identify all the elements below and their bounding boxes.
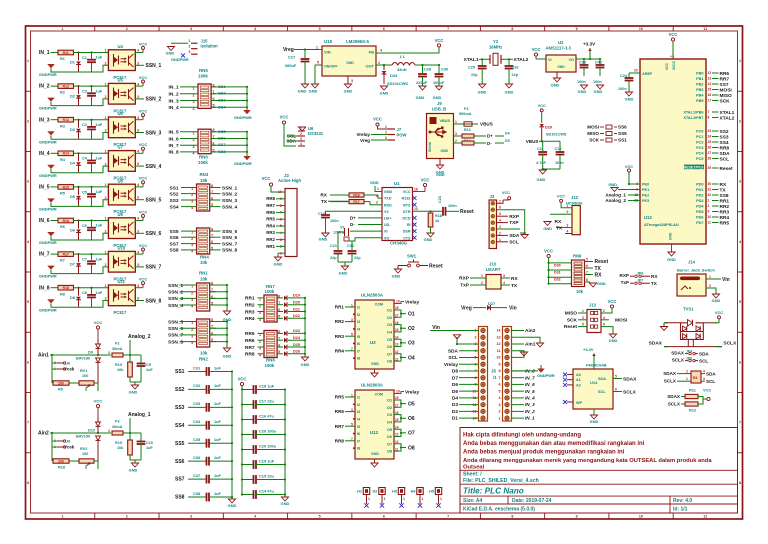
svg-text:SSN_2: SSN_2 xyxy=(222,191,238,197)
svg-text:12: 12 xyxy=(395,440,399,444)
svg-text:GND: GND xyxy=(166,51,175,56)
svg-text:I1: I1 xyxy=(357,396,360,400)
svg-text:SS2: SS2 xyxy=(170,191,179,197)
svg-text:Vreg: Vreg xyxy=(461,305,472,311)
svg-text:R3: R3 xyxy=(60,124,65,128)
svg-text:GND: GND xyxy=(298,89,307,94)
svg-text:VCC: VCC xyxy=(403,190,411,194)
svg-text:GNDPWR: GNDPWR xyxy=(234,115,252,120)
svg-text:D24: D24 xyxy=(293,336,301,340)
svg-text:1: 1 xyxy=(377,187,379,191)
svg-text:GNDPWR: GNDPWR xyxy=(39,274,57,279)
svg-text:2: 2 xyxy=(126,515,128,519)
svg-text:680uF: 680uF xyxy=(285,63,297,68)
svg-text:O6: O6 xyxy=(387,435,392,439)
svg-text:2: 2 xyxy=(105,162,107,166)
svg-text:Anda bebas menggunakan dan ata: Anda bebas menggunakan dan atau memodifi… xyxy=(463,441,645,447)
svg-text:GND: GND xyxy=(436,172,445,177)
svg-text:D4: D4 xyxy=(452,396,458,402)
svg-text:PD7: PD7 xyxy=(696,221,703,225)
svg-text:+3.3V: +3.3V xyxy=(583,42,596,47)
svg-text:SDAX: SDAX xyxy=(671,351,685,356)
svg-text:Reset: Reset xyxy=(429,264,443,270)
svg-text:VCC: VCC xyxy=(373,117,382,122)
svg-text:DCD: DCD xyxy=(403,217,411,221)
svg-text:TxP: TxP xyxy=(621,280,629,285)
svg-text:SCL: SCL xyxy=(448,355,458,361)
svg-text:GND: GND xyxy=(309,89,318,94)
svg-text:D25: D25 xyxy=(293,343,300,347)
svg-text:GND: GND xyxy=(551,83,560,88)
svg-text:3: 3 xyxy=(191,335,193,339)
svg-text:4: 4 xyxy=(193,107,195,111)
svg-text:IN_7: IN_7 xyxy=(39,252,50,258)
svg-text:VCC: VCC xyxy=(421,178,430,183)
svg-text:SDA: SDA xyxy=(699,352,709,357)
svg-text:D4: D4 xyxy=(505,132,510,136)
svg-text:O7: O7 xyxy=(387,352,392,356)
svg-text:VCC: VCC xyxy=(538,103,546,108)
svg-text:IN_7: IN_7 xyxy=(525,375,535,380)
svg-text:SSN_7: SSN_7 xyxy=(222,241,238,247)
svg-text:1: 1 xyxy=(422,497,424,501)
svg-text:1: 1 xyxy=(105,150,107,154)
svg-text:I3: I3 xyxy=(357,410,360,414)
svg-text:9: 9 xyxy=(576,515,578,519)
svg-text:Vin: Vin xyxy=(432,325,440,331)
svg-text:100n: 100n xyxy=(577,80,586,84)
svg-text:2: 2 xyxy=(481,281,483,285)
svg-text:Id: 1/1: Id: 1/1 xyxy=(673,507,688,513)
svg-text:3: 3 xyxy=(567,224,569,228)
svg-text:4: 4 xyxy=(703,370,705,374)
svg-text:TX: TX xyxy=(651,281,658,286)
svg-text:RV1: RV1 xyxy=(80,369,87,373)
svg-text:PD4: PD4 xyxy=(696,205,704,209)
svg-text:Vin: Vin xyxy=(509,305,517,311)
svg-text:14: 14 xyxy=(708,82,712,86)
svg-text:DTR: DTR xyxy=(403,210,411,214)
svg-text:VCC: VCC xyxy=(139,243,148,248)
svg-text:11: 11 xyxy=(703,515,707,519)
svg-text:RR4: RR4 xyxy=(720,215,730,221)
svg-text:PC4: PC4 xyxy=(696,152,704,156)
svg-text:SDAX: SDAX xyxy=(667,394,681,399)
svg-text:C19 1uF: C19 1uF xyxy=(259,459,275,464)
svg-text:R18: R18 xyxy=(435,214,442,218)
svg-text:SSN_6: SSN_6 xyxy=(146,231,162,237)
svg-text:Vreg: Vreg xyxy=(360,138,370,143)
svg-text:SCL: SCL xyxy=(706,379,715,384)
svg-text:C12: C12 xyxy=(555,147,562,151)
svg-text:ON/OFF: ON/OFF xyxy=(324,65,338,69)
svg-text:IN_1: IN_1 xyxy=(39,50,50,56)
svg-text:R13: R13 xyxy=(63,118,69,122)
svg-text:22p: 22p xyxy=(354,256,361,260)
svg-text:10k: 10k xyxy=(200,260,208,265)
svg-text:SS4: SS4 xyxy=(720,140,729,146)
svg-text:33uH: 33uH xyxy=(397,67,407,72)
svg-text:28: 28 xyxy=(708,156,712,160)
svg-text:R11: R11 xyxy=(63,51,69,55)
svg-text:4: 4 xyxy=(603,316,605,320)
svg-text:PC2: PC2 xyxy=(696,141,703,145)
svg-text:8: 8 xyxy=(511,27,513,31)
svg-text:1uF: 1uF xyxy=(214,365,222,370)
svg-text:3: 3 xyxy=(108,429,110,433)
svg-text:IN_4: IN_4 xyxy=(525,396,535,401)
svg-text:C6: C6 xyxy=(82,224,87,228)
svg-text:1uF: 1uF xyxy=(214,437,222,442)
svg-text:C30: C30 xyxy=(441,67,448,72)
svg-text:VCC: VCC xyxy=(544,249,553,254)
svg-text:SSN_1: SSN_1 xyxy=(222,185,238,191)
svg-text:SS3: SS3 xyxy=(175,405,185,411)
svg-text:3: 3 xyxy=(499,403,501,407)
svg-text:100k: 100k xyxy=(198,160,208,165)
svg-text:7: 7 xyxy=(278,301,280,305)
svg-text:SDA: SDA xyxy=(598,377,606,381)
svg-text:4: 4 xyxy=(191,206,193,210)
svg-text:COM: COM xyxy=(375,392,383,396)
svg-text:13: 13 xyxy=(414,207,418,211)
svg-text:D32: D32 xyxy=(554,278,561,282)
svg-text:IN_3: IN_3 xyxy=(525,402,535,407)
svg-text:500mA: 500mA xyxy=(459,112,472,116)
svg-text:1: 1 xyxy=(105,250,107,254)
svg-text:5: 5 xyxy=(211,203,213,207)
svg-text:MISO: MISO xyxy=(587,131,599,136)
svg-text:VCC: VCC xyxy=(94,399,103,404)
svg-text:Isolation: Isolation xyxy=(201,44,219,49)
svg-text:C38: C38 xyxy=(193,491,201,496)
svg-text:D31: D31 xyxy=(554,271,561,275)
svg-text:/1: /1 xyxy=(493,375,497,380)
svg-text:2: 2 xyxy=(27,119,29,123)
svg-text:AVCC: AVCC xyxy=(672,60,676,70)
svg-text:6: 6 xyxy=(603,323,605,327)
svg-text:1: 1 xyxy=(191,187,193,191)
svg-text:O1: O1 xyxy=(408,311,415,317)
svg-text:SS6: SS6 xyxy=(175,459,185,465)
svg-text:3: 3 xyxy=(739,180,741,184)
svg-text:IN_2: IN_2 xyxy=(525,409,535,414)
svg-text:U2: U2 xyxy=(558,40,564,45)
svg-text:100: 100 xyxy=(82,452,88,456)
svg-text:17: 17 xyxy=(395,314,399,318)
svg-text:10: 10 xyxy=(396,390,400,394)
svg-text:C37: C37 xyxy=(193,473,200,478)
svg-text:A1: A1 xyxy=(576,378,581,382)
svg-text:14: 14 xyxy=(395,335,399,339)
svg-text:1: 1 xyxy=(105,217,107,221)
svg-text:Anda dilarang menggunakan mere: Anda dilarang menggunakan merek yang men… xyxy=(463,458,712,464)
svg-text:2: 2 xyxy=(105,297,107,301)
svg-text:C21: C21 xyxy=(330,244,337,248)
svg-text:100n: 100n xyxy=(593,80,602,84)
svg-text:RR5: RR5 xyxy=(245,331,255,337)
svg-text:XTAL2: XTAL2 xyxy=(720,115,735,121)
svg-text:PC1: PC1 xyxy=(696,135,703,139)
svg-text:R11: R11 xyxy=(689,388,697,393)
svg-text:3: 3 xyxy=(376,201,378,205)
svg-text:C34: C34 xyxy=(193,419,201,424)
svg-text:GND: GND xyxy=(274,262,283,267)
svg-text:GND: GND xyxy=(433,95,442,100)
svg-text:7: 7 xyxy=(27,421,29,425)
svg-text:PB2: PB2 xyxy=(696,83,703,87)
svg-text:Vreg: Vreg xyxy=(283,47,294,53)
svg-text:2: 2 xyxy=(709,284,711,288)
svg-text:U13: U13 xyxy=(644,215,652,220)
svg-text:4: 4 xyxy=(499,219,501,223)
svg-text:GND: GND xyxy=(370,180,379,185)
svg-text:RR6: RR6 xyxy=(266,210,275,215)
svg-text:D22: D22 xyxy=(293,314,300,318)
svg-text:6: 6 xyxy=(383,27,385,31)
svg-text:7: 7 xyxy=(211,190,213,194)
svg-text:IN_4: IN_4 xyxy=(39,151,50,157)
svg-text:O7: O7 xyxy=(408,431,415,437)
svg-text:Active High: Active High xyxy=(278,178,301,183)
svg-text:RR6: RR6 xyxy=(720,71,730,77)
svg-text:SDA: SDA xyxy=(706,372,716,377)
svg-text:PE0: PE0 xyxy=(642,183,649,187)
svg-text:GND: GND xyxy=(578,89,587,94)
svg-text:IN_1: IN_1 xyxy=(169,85,179,91)
svg-text:6: 6 xyxy=(211,240,213,244)
svg-text:RR4: RR4 xyxy=(245,316,255,322)
svg-text:C5: C5 xyxy=(82,190,87,194)
svg-text:GND: GND xyxy=(129,390,138,395)
svg-text:C23: C23 xyxy=(438,196,442,203)
svg-text:VCC: VCC xyxy=(139,41,148,46)
svg-text:Anda bebas menjual produk meng: Anda bebas menjual produk menggunakan ra… xyxy=(463,450,625,456)
svg-text:R16: R16 xyxy=(63,219,69,223)
svg-text:SSN_4: SSN_4 xyxy=(168,303,184,309)
svg-text:VCC: VCC xyxy=(238,377,247,382)
svg-text:I8: I8 xyxy=(357,357,360,361)
svg-text:SSN_3: SSN_3 xyxy=(146,130,162,136)
svg-text:GND: GND xyxy=(543,226,552,231)
svg-text:O4: O4 xyxy=(387,421,393,425)
svg-text:1: 1 xyxy=(351,303,353,307)
svg-text:100k: 100k xyxy=(265,363,275,368)
svg-text:VCC: VCC xyxy=(139,142,148,147)
svg-text:4: 4 xyxy=(503,281,505,285)
svg-text:O3: O3 xyxy=(408,341,415,347)
svg-text:J8: J8 xyxy=(66,440,70,444)
svg-text:Analog_1: Analog_1 xyxy=(605,193,626,198)
svg-text:11: 11 xyxy=(395,447,399,451)
svg-text:D8: D8 xyxy=(70,296,75,300)
svg-text:1: 1 xyxy=(739,59,741,63)
svg-text:SSN_8: SSN_8 xyxy=(222,248,238,254)
svg-text:D+: D+ xyxy=(487,134,493,139)
svg-text:TXD: TXD xyxy=(384,197,392,201)
svg-text:IN_1: IN_1 xyxy=(525,416,535,421)
svg-text:RR4: RR4 xyxy=(335,348,345,353)
svg-text:200: 200 xyxy=(58,459,64,463)
svg-text:RR3: RR3 xyxy=(266,230,275,235)
svg-text:Ain2: Ain2 xyxy=(38,431,49,437)
svg-text:IN_8: IN_8 xyxy=(39,285,50,291)
svg-text:2: 2 xyxy=(259,304,261,308)
svg-text:C32: C32 xyxy=(193,383,201,388)
svg-text:U11: U11 xyxy=(118,279,126,284)
svg-text:22p: 22p xyxy=(330,256,337,260)
svg-text:2: 2 xyxy=(105,129,107,133)
svg-text:PD0: PD0 xyxy=(696,183,703,187)
svg-text:R19: R19 xyxy=(115,441,122,445)
svg-text:5: 5 xyxy=(351,423,353,427)
svg-text:SSN_7: SSN_7 xyxy=(168,333,184,339)
svg-text:Reset: Reset xyxy=(720,166,733,172)
svg-text:VCC: VCC xyxy=(557,194,565,199)
svg-text:C9: C9 xyxy=(146,363,151,367)
svg-text:U12: U12 xyxy=(370,430,379,435)
svg-text:Title: PLC Nano: Title: PLC Nano xyxy=(463,487,524,496)
svg-text:1: 1 xyxy=(105,49,107,53)
svg-text:1uF: 1uF xyxy=(96,291,103,295)
svg-text:SDA: SDA xyxy=(448,348,459,354)
svg-text:GND: GND xyxy=(344,89,353,94)
svg-text:H5: H5 xyxy=(429,490,434,494)
svg-text:D6: D6 xyxy=(70,229,75,233)
svg-text:GND: GND xyxy=(440,149,448,153)
svg-text:C16 47u: C16 47u xyxy=(259,414,275,419)
svg-text:D19: D19 xyxy=(293,294,300,298)
svg-text:RN9: RN9 xyxy=(573,254,582,259)
svg-text:R5: R5 xyxy=(58,388,63,392)
svg-text:GNDPWR: GNDPWR xyxy=(171,57,189,62)
svg-text:5: 5 xyxy=(27,300,29,304)
svg-text:XO: XO xyxy=(384,236,389,240)
svg-text:3: 3 xyxy=(351,408,353,412)
svg-text:SCLX: SCLX xyxy=(672,358,685,363)
svg-text:U15: U15 xyxy=(324,39,333,44)
svg-text:3: 3 xyxy=(137,162,139,166)
svg-text:6: 6 xyxy=(27,360,29,364)
svg-text:RXP: RXP xyxy=(509,214,520,220)
svg-text:O4: O4 xyxy=(387,331,393,335)
svg-text:VBUS: VBUS xyxy=(439,119,450,123)
svg-text:SSN_3: SSN_3 xyxy=(222,198,238,204)
svg-text:D29: D29 xyxy=(545,126,552,130)
svg-text:D-: D- xyxy=(350,222,355,227)
svg-text:2: 2 xyxy=(126,27,128,31)
svg-text:SSN_4: SSN_4 xyxy=(222,204,238,210)
svg-text:200: 200 xyxy=(58,381,64,385)
svg-text:8: 8 xyxy=(511,515,513,519)
svg-text:TXP: TXP xyxy=(509,220,519,226)
svg-text:RR5: RR5 xyxy=(720,220,730,226)
svg-text:D2: D2 xyxy=(70,94,75,98)
svg-text:IN_2: IN_2 xyxy=(169,92,179,98)
svg-text:GND: GND xyxy=(223,354,232,359)
svg-text:IN_5: IN_5 xyxy=(169,130,179,136)
svg-text:1uF: 1uF xyxy=(96,224,103,228)
svg-text:1: 1 xyxy=(686,377,688,381)
svg-text:Y2: Y2 xyxy=(493,39,499,44)
svg-text:3: 3 xyxy=(300,137,302,141)
svg-text:OUT: OUT xyxy=(366,64,375,69)
svg-text:RR2: RR2 xyxy=(335,319,345,324)
svg-text:1: 1 xyxy=(499,238,501,242)
svg-text:USB_B: USB_B xyxy=(432,107,446,112)
svg-text:XTAL2: XTAL2 xyxy=(514,57,529,63)
svg-text:R16: R16 xyxy=(353,193,359,197)
svg-text:GND: GND xyxy=(590,419,599,424)
svg-text:20: 20 xyxy=(634,69,638,73)
svg-text:RR5: RR5 xyxy=(335,395,345,400)
svg-text:RR3: RR3 xyxy=(245,309,255,315)
svg-text:1: 1 xyxy=(259,333,261,337)
svg-text:C3: C3 xyxy=(82,123,87,127)
svg-text:3: 3 xyxy=(108,351,110,355)
svg-text:9: 9 xyxy=(499,362,501,366)
svg-text:I5: I5 xyxy=(357,335,360,339)
svg-text:GND: GND xyxy=(478,90,487,95)
svg-text:RR1: RR1 xyxy=(245,296,255,302)
svg-text:J10: J10 xyxy=(489,262,497,267)
svg-text:SS5: SS5 xyxy=(170,229,179,235)
svg-text:VBUS: VBUS xyxy=(526,139,539,144)
svg-text:2: 2 xyxy=(191,328,193,332)
svg-text:SDAX: SDAX xyxy=(623,376,637,382)
svg-text:1uF: 1uF xyxy=(214,401,222,406)
svg-text:IN_4: IN_4 xyxy=(169,105,179,111)
svg-text:15: 15 xyxy=(395,418,399,422)
svg-text:V3: V3 xyxy=(384,210,389,214)
svg-text:C18 1uF: C18 1uF xyxy=(259,384,275,389)
svg-text:18: 18 xyxy=(395,306,399,310)
svg-text:RN3: RN3 xyxy=(200,172,209,177)
svg-text:RR7: RR7 xyxy=(245,345,255,351)
svg-text:10k: 10k xyxy=(117,446,124,450)
svg-text:9: 9 xyxy=(576,27,578,31)
svg-text:10k: 10k xyxy=(200,277,208,282)
svg-text:Vrelay: Vrelay xyxy=(405,300,419,306)
svg-text:RR7: RR7 xyxy=(266,203,275,208)
svg-text:3: 3 xyxy=(193,100,195,104)
svg-text:F1: F1 xyxy=(464,106,469,111)
svg-text:GND: GND xyxy=(505,90,514,95)
svg-text:VCC: VCC xyxy=(665,62,669,70)
svg-text:GND: GND xyxy=(319,237,328,242)
svg-text:PD3: PD3 xyxy=(696,199,703,203)
svg-text:15: 15 xyxy=(708,87,712,91)
svg-text:SS4: SS4 xyxy=(175,423,185,429)
svg-text:RN5: RN5 xyxy=(199,68,208,73)
svg-text:XTAL1/PB6: XTAL1/PB6 xyxy=(683,111,703,115)
svg-text:D7: D7 xyxy=(452,375,458,381)
svg-text:7: 7 xyxy=(351,437,353,441)
svg-text:13: 13 xyxy=(395,343,399,347)
svg-text:3: 3 xyxy=(191,200,193,204)
svg-text:D5: D5 xyxy=(505,139,510,143)
svg-text:SS6: SS6 xyxy=(170,235,179,241)
svg-text:R14: R14 xyxy=(63,152,69,156)
svg-text:3: 3 xyxy=(191,298,193,302)
svg-text:SS3: SS3 xyxy=(720,134,729,140)
svg-text:Vrelay: Vrelay xyxy=(356,132,370,137)
svg-text:8: 8 xyxy=(27,481,29,485)
svg-text:SSN_5: SSN_5 xyxy=(146,198,162,204)
svg-text:GND: GND xyxy=(228,503,237,508)
svg-text:VCC: VCC xyxy=(715,310,723,315)
svg-text:7: 7 xyxy=(447,27,449,31)
